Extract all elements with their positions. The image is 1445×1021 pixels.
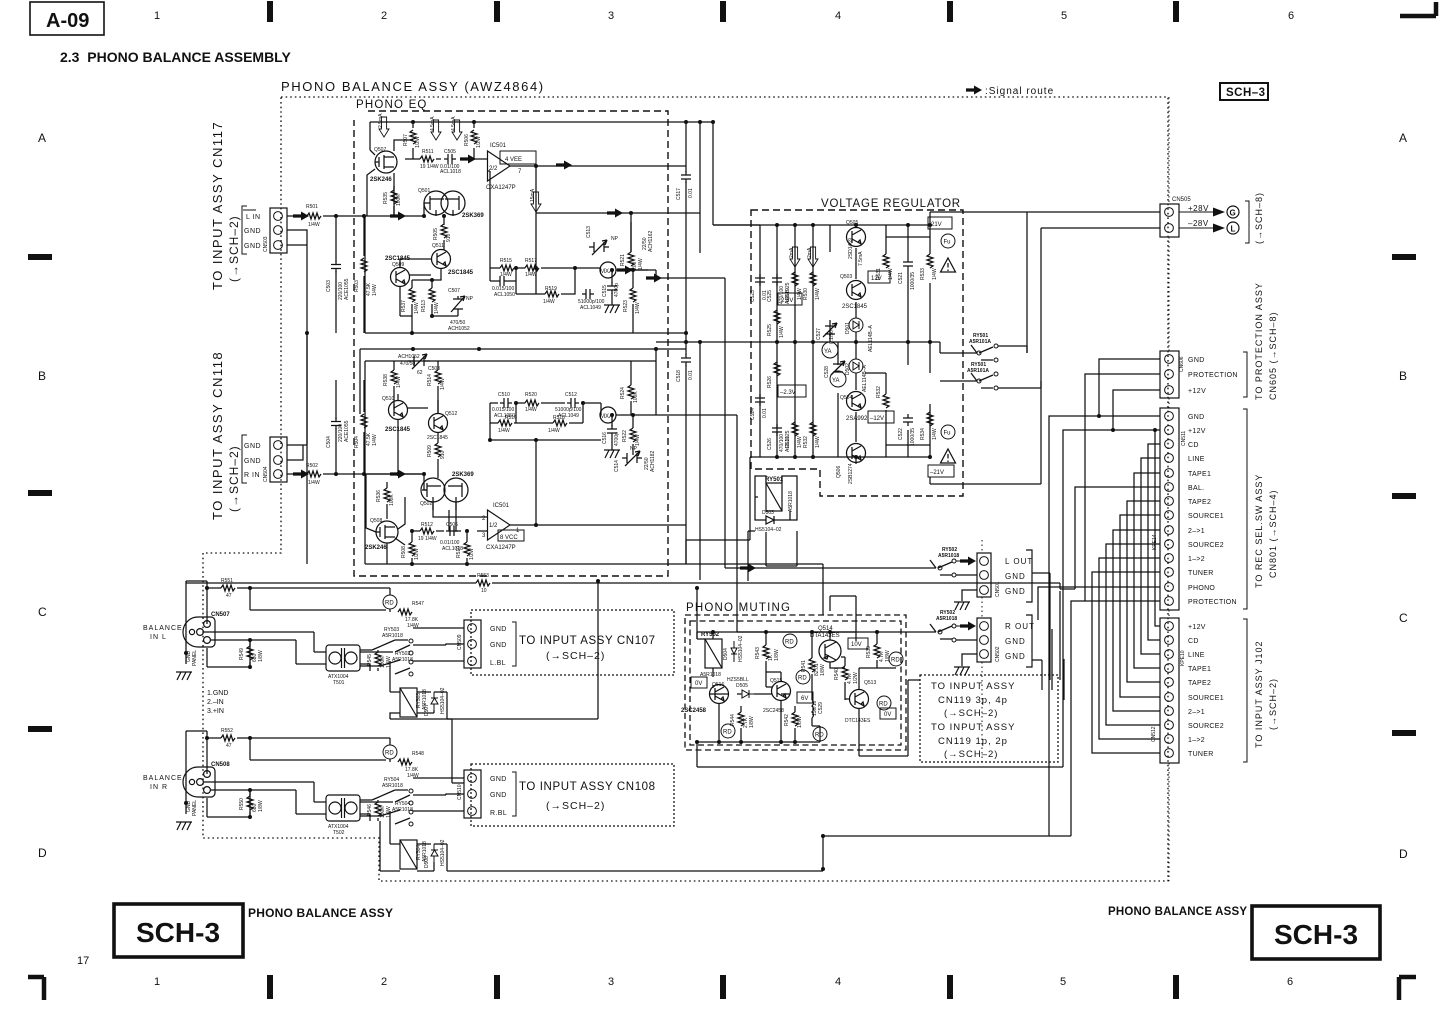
connector CN117 [263,208,287,253]
svg-text:SOURCE2: SOURCE2 [1188,723,1224,730]
svg-text:1/4W: 1/4W [779,326,785,338]
svg-text:R541: R541 [801,660,807,672]
svg-text:HS5104–02: HS5104–02 [440,687,446,714]
side dashes [28,257,1416,733]
resistor R550 [249,790,251,817]
transistor Q514 [819,640,841,662]
wire q pair R [398,394,438,474]
signal arrow R into EQ [390,470,406,479]
svg-text:C504: C504 [326,436,332,448]
svg-text:Q510: Q510 [382,396,394,402]
capacitor C509 [496,276,508,286]
svg-text:SOURCE1: SOURCE1 [1188,695,1224,702]
svg-text:ACH1182: ACH1182 [650,450,656,472]
svg-text:VOLTAGE REGULATOR: VOLTAGE REGULATOR [821,198,961,210]
svg-text:D501: D501 [845,322,851,334]
svg-text:TUNER: TUNER [1188,570,1214,577]
resistor R541 [811,648,813,684]
svg-text:R545: R545 [367,654,373,666]
svg-text:CN119 1p, 2p: CN119 1p, 2p [938,736,1008,747]
feedback network row [487,171,601,294]
switch RY503b [360,660,410,674]
svg-text:1/2W: 1/2W [414,548,420,560]
resistor R529 [792,272,798,286]
svg-text:R549: R549 [239,648,245,660]
svg-text:PHONO BALANCE ASSY: PHONO BALANCE ASSY [248,906,393,920]
svg-text:1000/35: 1000/35 [910,272,916,290]
box 21V [928,217,952,229]
svg-text:2SK369: 2SK369 [462,213,484,219]
wire 21V to CN505 [930,212,1041,484]
svg-text:10V: 10V [851,642,862,648]
resistor R549 [249,640,251,667]
signal arrow after opamp [556,161,572,170]
wire cn502 pins [956,640,977,666]
svg-text:BALANCE: BALANCE [143,775,183,782]
svg-text:100K: 100K [389,494,395,506]
svg-text:CN119 3p, 4p: CN119 3p, 4p [938,695,1008,706]
svg-text:AEL114B–A: AEL114B–A [862,364,868,392]
svg-text:CN504: CN504 [263,466,269,482]
svg-text:A5R1018: A5R1018 [788,491,794,512]
svg-text:R503: R503 [354,280,360,292]
svg-text:NP: NP [611,236,619,242]
wire R signal to muting [656,415,737,632]
svg-text:Q505: Q505 [846,220,858,226]
svg-text:RY502: RY502 [701,632,720,638]
node L [1227,222,1239,234]
brace CN605 [1243,352,1247,397]
transistor Q503 [847,281,866,300]
junction dots L [334,214,338,218]
svg-text:GND: GND [244,458,261,465]
svg-text:R526: R526 [767,376,773,388]
svg-text:0.01: 0.01 [688,370,694,380]
svg-text:C503: C503 [326,280,332,292]
signal arrow to G [1179,212,1214,228]
svg-text:1–>2: 1–>2 [1188,556,1205,563]
svg-text:C: C [1399,611,1408,625]
wire gnd mid bus [656,333,940,580]
coil C529 [812,700,814,726]
svg-text:R548: R548 [412,751,424,757]
svg-text:ACH1052: ACH1052 [398,354,420,360]
top right corner mark [1400,2,1436,16]
resistor R552 [221,735,235,741]
svg-text::Signal route: :Signal route [985,86,1054,97]
resistor R501 [307,213,321,219]
wire bottom bus [598,564,1071,836]
svg-text:ACH1052: ACH1052 [448,326,470,332]
svg-text:TO PROTECTION ASSY: TO PROTECTION ASSY [1254,282,1264,400]
svg-text:R551: R551 [221,578,233,584]
svg-text:LINE: LINE [1188,456,1205,463]
svg-text:GND: GND [244,228,261,235]
svg-text:7.5mA: 7.5mA [858,251,864,266]
svg-text:Q511: Q511 [432,243,444,249]
switch RY504a [360,790,410,802]
trimmer C507 [451,296,465,316]
capacitor C521 [907,254,909,258]
connector CN501 [977,553,1001,597]
svg-text:1/4W: 1/4W [525,407,537,413]
trimmer C508 [408,354,430,369]
resistor R507 [412,122,414,159]
svg-text:R542: R542 [784,714,790,726]
svg-text:ACH1162: ACH1162 [648,230,654,252]
svg-text:R OUT: R OUT [1005,622,1035,631]
svg-text:ACL1049: ACL1049 [580,305,601,311]
svg-text:IN L: IN L [150,634,167,641]
signal arrow into opamp [460,155,476,164]
dual fet Q502 [421,478,468,510]
svg-text:CN510: CN510 [457,784,463,800]
bracket cn510 [512,772,516,816]
svg-text:1/2W: 1/2W [469,548,475,560]
svg-text:R531: R531 [876,268,882,280]
wire from switches to right [998,346,1041,388]
svg-text:3.+IN: 3.+IN [207,708,224,715]
svg-text:C515: C515 [602,285,608,297]
box 10V [848,638,868,649]
svg-text:C: C [38,605,47,619]
capacitor C526 [772,424,782,436]
resistor R531 [885,237,887,254]
svg-text:IC501: IC501 [493,503,510,509]
resistor R523 [632,277,634,333]
svg-text:2SC1845: 2SC1845 [448,270,474,276]
node MXA [600,262,616,278]
svg-text:2–>1: 2–>1 [1188,528,1205,535]
relay RY504 [400,840,417,869]
svg-text:BALANCE: BALANCE [143,625,183,632]
svg-text:PHONO MUTING: PHONO MUTING [686,602,791,614]
svg-text:A5R101A: A5R101A [969,339,991,345]
svg-text:1/2: 1/2 [489,523,498,529]
wire balance R [186,731,393,821]
svg-text:R517: R517 [525,258,537,264]
svg-text:R550: R550 [239,798,245,810]
resistor R547 [389,609,391,612]
svg-text:CXA1247P: CXA1247P [486,545,516,551]
SCH-3 box bottom left [114,904,243,957]
signal arrow into EQ [390,212,406,221]
resistor R537 [409,288,415,302]
svg-text:1/4W: 1/4W [308,480,320,486]
svg-text:CN505: CN505 [1172,197,1191,203]
svg-text:Q512: Q512 [445,411,457,417]
svg-text:L: L [1231,225,1236,234]
phono balance assy dotted outline [203,97,1168,881]
svg-text:GND: GND [1188,414,1204,421]
current arrow 2.5mA [379,117,389,137]
svg-text:TAPE1: TAPE1 [1188,666,1211,673]
svg-text:Q508: Q508 [370,518,382,524]
svg-text:TAPE1: TAPE1 [1188,471,1211,478]
op-amp IC501b [488,510,511,540]
svg-text:C525: C525 [767,290,773,302]
svg-text:C512: C512 [565,392,577,398]
svg-text:HS5104–02: HS5104–02 [755,527,782,533]
svg-text:1/4W: 1/4W [888,268,894,280]
current arrow 4.5mA b [452,120,462,140]
svg-text:–28V: –28V [1188,219,1209,228]
svg-text:(→SCH–2): (→SCH–2) [546,650,605,662]
svg-text:C514: C514 [614,460,620,472]
svg-text:Q502: Q502 [420,501,432,507]
bracket cn501 [1026,550,1050,680]
svg-text:3: 3 [608,976,614,988]
svg-text:R532: R532 [803,436,809,448]
box 0V b [880,708,896,719]
RD circle 6 [721,724,735,738]
RD circle 4 [889,652,903,666]
resistor R545 [377,650,379,671]
wire gate R [364,474,427,490]
RD circle 5 [877,696,891,710]
svg-text:HS5104–02: HS5104–02 [440,839,446,866]
svg-text:C513: C513 [586,226,592,238]
RD circle 1 [783,634,797,648]
resistor R539 [876,634,878,668]
svg-text:AEL114B–A: AEL114B–A [868,324,874,352]
resistor R534 [927,412,933,426]
resistor R542 [794,706,796,737]
resistor R524 [630,361,632,415]
svg-text:R521: R521 [620,254,626,266]
svg-text:R516: R516 [505,415,517,421]
capacitor C515 [611,278,613,305]
svg-text:CN605 (→SCH–8): CN605 (→SCH–8) [1268,311,1278,400]
box -2.3V [778,385,806,397]
svg-text:RY501: RY501 [765,477,784,483]
diode D503 [762,516,778,524]
svg-text:5: 5 [1060,976,1066,988]
svg-text:0.01: 0.01 [688,188,694,198]
connector CN509 [457,620,481,668]
diode D504 [731,641,737,662]
wire cn501 pins [956,575,977,601]
svg-text:1/4W: 1/4W [386,656,392,668]
ground EQ L [604,305,620,313]
svg-text:CN501: CN501 [995,581,1001,597]
svg-text:2: 2 [381,976,387,988]
node MXA R [600,407,616,423]
CN108 dashed box [471,764,674,826]
svg-text:Q509: Q509 [392,262,404,268]
svg-text:C528: C528 [824,366,830,378]
svg-text:C518: C518 [676,370,682,382]
svg-text:910: 910 [446,233,452,242]
svg-text:A5R1018: A5R1018 [382,783,403,789]
svg-text:CN508: CN508 [211,762,230,768]
svg-text:C505: C505 [444,149,456,155]
wire gate feeds [424,203,444,225]
svg-text:SCH-3: SCH-3 [136,917,220,948]
svg-text:Q513: Q513 [864,680,876,686]
svg-text:PROTECTION: PROTECTION [1188,372,1238,379]
svg-text:CN512: CN512 [1151,726,1157,742]
transistor Q509 [391,268,410,287]
svg-text:TO INPUT ASSY CN117: TO INPUT ASSY CN117 [210,121,225,290]
svg-text:62: 62 [417,370,423,376]
svg-text:TO INPUT ASSY CN118: TO INPUT ASSY CN118 [210,351,225,520]
top ruler numbers [154,10,1294,22]
svg-text:1/4W: 1/4W [498,428,510,434]
connector CN605 [1160,351,1185,398]
ground EQ R [604,450,620,458]
svg-text:R.BL: R.BL [490,810,507,817]
svg-text:1/4W: 1/4W [372,284,378,296]
svg-text:B: B [38,369,46,383]
connector J102 [1151,618,1186,763]
svg-text:2mA: 2mA [789,247,795,258]
svg-text:G: G [1230,209,1236,218]
svg-text:(→SCH–2): (→SCH–2) [944,749,998,760]
svg-text:47: 47 [226,743,232,749]
svg-text:IC501: IC501 [490,143,507,149]
svg-text:1/4W: 1/4W [386,806,392,818]
resistor R509 [435,443,441,457]
wire to CN509 [250,588,464,661]
svg-text:2.3 PHONO BALANCE ASSEMBLY: 2.3 PHONO BALANCE ASSEMBLY [60,49,291,65]
svg-text:C517: C517 [676,188,682,200]
svg-text:R502: R502 [306,463,318,469]
svg-text:1/4W: 1/4W [414,302,420,314]
resistor R530 [810,272,816,286]
svg-text:TO INPUT ASSY: TO INPUT ASSY [931,722,1015,733]
svg-text:4.5mA: 4.5mA [430,116,436,131]
svg-text:1.GND: 1.GND [207,690,228,697]
svg-text:TO INPUT ASSY CN108: TO INPUT ASSY CN108 [519,781,656,793]
trimmer C514 [622,451,642,466]
wire balance L [186,581,393,671]
svg-text:Q503: Q503 [840,274,852,280]
capacitor C504 [335,380,337,474]
diode D502 [849,359,863,373]
svg-text:D503: D503 [762,510,774,516]
svg-text:6: 6 [1288,10,1294,22]
svg-text:1/4W: 1/4W [525,272,537,278]
svg-text:GND: GND [1005,587,1026,596]
svg-text:4700p: 4700p [614,283,620,297]
svg-text:R522: R522 [622,430,628,442]
svg-text:1/4W: 1/4W [815,436,821,448]
node G [1227,206,1239,218]
svg-text:TAPE2: TAPE2 [1188,680,1211,687]
resistor R517 [525,265,539,271]
dotted link cn501-cn502 [981,540,983,762]
wire relay RY501 [755,476,797,520]
svg-text:4: 4 [835,976,841,988]
current arrow 15mA [531,192,541,212]
svg-text:Q501: Q501 [418,188,430,194]
trimmer C528 [831,361,845,375]
wire rails R [360,349,686,564]
svg-text:A: A [1399,131,1407,145]
SCH-3 box bottom right [1252,906,1380,959]
switch RY504c [360,810,410,824]
wire GND rail to CN511 [1049,416,1160,836]
svg-text:0V: 0V [884,712,891,718]
RD circle bal R [383,745,397,759]
svg-text:GND: GND [1005,637,1026,646]
signal arrow mid rail [607,209,623,218]
svg-text:C510: C510 [498,392,510,398]
svg-text:SOURCE2: SOURCE2 [1188,542,1224,549]
svg-text:19 1/4W: 19 1/4W [418,536,437,542]
svg-text:TO INPUT ASSY J102: TO INPUT ASSY J102 [1254,640,1264,748]
diode D507 [431,692,438,710]
feedback row R channel [490,403,601,440]
CN107 dashed box [471,610,674,675]
svg-text:CN801 (→SCH–4): CN801 (→SCH–4) [1268,489,1278,578]
signal arrow R in [293,470,309,479]
svg-text:SCH–3: SCH–3 [1226,87,1266,99]
capacitor C533 [607,425,617,437]
wire BAL PHONO PROTECTION long runs [1038,487,1160,836]
svg-text:R532: R532 [876,386,882,398]
resistor R543 [765,634,767,672]
resistor R513 [432,280,458,316]
svg-text:L IN: L IN [246,214,261,221]
resistor R531b [792,422,798,436]
fuse F2 [941,425,955,439]
svg-text:GND: GND [490,792,507,799]
svg-text:1/2W: 1/2W [415,136,421,148]
signal route legend [966,86,1054,98]
resistor R525 [774,310,780,324]
svg-text:ACE1055: ACE1055 [344,420,350,442]
transistor Q505 [847,228,866,247]
svg-text:R553: R553 [477,573,489,579]
svg-text:R508: R508 [401,546,407,558]
YA circle 2 [830,371,846,387]
svg-text:(→SCH–2): (→SCH–2) [227,445,241,512]
resistor R532 [883,394,889,408]
svg-text:+12V: +12V [1188,388,1206,395]
svg-text:C529: C529 [818,702,824,714]
svg-text:(→SCH–2): (→SCH–2) [1268,678,1278,730]
signal arrow EQ L out [617,266,633,275]
bracket cn509 [512,622,516,666]
trimmer C513 [589,240,609,255]
svg-text:KPE10: KPE10 [1180,650,1186,666]
svg-text:1/4W: 1/4W [815,288,821,300]
svg-text:Q506: Q506 [836,466,842,478]
svg-text:PHONO BALANCE ASSY: PHONO BALANCE ASSY [1108,906,1247,918]
svg-text:5: 5 [1061,10,1067,22]
capacitor C525 [772,274,782,286]
transformer T502 [326,795,360,821]
svg-text:1: 1 [154,976,160,988]
svg-text:R511: R511 [422,149,434,155]
capacitor C523 [755,274,765,286]
wire bottom rail L [365,216,686,333]
capacitor C503 [335,216,337,333]
brace CN511 [1243,409,1247,609]
wire R IN [287,473,424,475]
svg-text:910: 910 [440,450,446,459]
svg-text:GND: GND [244,243,261,250]
svg-text:2SC2458: 2SC2458 [681,708,707,714]
bracket cn502 [1026,615,1042,690]
svg-text:A5R1018: A5R1018 [382,633,403,639]
svg-text:C516: C516 [602,432,608,444]
svg-text:R535: R535 [383,192,389,204]
svg-text:1/4W: 1/4W [396,376,402,388]
label pins [207,690,228,715]
